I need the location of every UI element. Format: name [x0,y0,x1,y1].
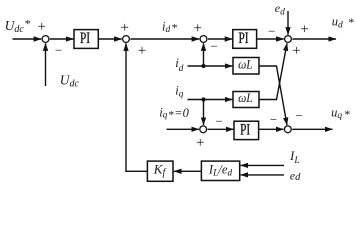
svg-text:+: + [120,20,128,36]
label e_d (bottom input) [290,168,301,183]
sign - above-right of S5 for i_q feedback [215,113,222,128]
wire: i_q into wL block B2 [188,99,233,101]
svg-text:−: − [268,23,275,38]
wire: U_dc feedback arrow up into S1 [45,43,47,86]
sign + above-left of S3 [193,21,201,37]
svg-text:−: − [55,43,62,58]
label i_q (measured q current) [175,84,183,100]
sign + above S2 [120,20,128,36]
svg-text:PI: PI [240,122,250,139]
sign - above-right of S6 for cross-coupling [296,108,303,123]
block B2 wL (q-axis decoupling) [233,91,259,108]
wire: S4 output arrow u_d* [292,38,336,40]
sign + at summing junction S1 [37,19,45,35]
wire: S2 to summing junction S3 (i_d* signal) [130,38,199,40]
block K_f (feed-forward gain) [147,161,173,181]
wire: I_L input arrow into I_L/e_d block [241,164,284,166]
wire: PI U3 output to summing junction S6 [259,128,284,130]
svg-text:−: − [270,112,277,127]
svg-text:ωL: ωL [238,91,253,105]
label U_dc (measured dc voltage) [60,73,80,90]
sign - below-right of S3 for i_d feedback [211,39,218,54]
wire: i_q feedback arrow down into S5 [203,100,205,126]
label U_dc* (input reference) [5,17,31,36]
PI controller U3 (q-axis current) [234,121,259,139]
sign + below S5 [196,135,204,151]
svg-text:PI: PI [80,30,90,47]
summing junction S4 (u_d* output sum) [285,36,292,43]
label I_L (load current) [289,148,300,166]
wire: U_dc* input arrow into summing junction S1 [13,38,42,40]
svg-text:−: − [296,108,303,123]
wire: S5 to PI current controller U3 [208,128,234,130]
sign - above wire PI U3 to S6 [270,112,277,127]
label u_q* (output) [331,106,350,121]
wire: S3 to PI current controller U2 [208,38,232,40]
PI controller U1 (dc voltage) [74,30,98,49]
wire: I_L/e_d output arrow into K_f [174,170,201,172]
wire: PI U2 output to summing junction S4 [257,38,284,40]
sign - below S1 for U_dc feedback [55,43,62,58]
junction dot on i_q line [201,97,205,101]
svg-text:+: + [292,43,300,59]
svg-text:+: + [138,43,146,59]
summing junction S3 (i_d error) [200,36,207,43]
label i_d (measured d current) [175,56,183,74]
wire: i_q*=0 input arrow into S5 [167,128,199,130]
svg-text:+: + [37,19,45,35]
junction dot on i_d line [201,64,205,68]
wire: S1 to PI voltage controller [50,38,74,40]
sign + below-right of S4 for cross-coupling [292,43,300,59]
svg-text:−: − [211,39,218,54]
block I_L/e_d (load current feed-forward) [201,161,239,180]
sign - above wire PI U2 to S4 [268,23,275,38]
label e_d (grid voltage feed-forward, top) [275,1,285,18]
sign + below-right of S2 for K_f feed-forward [138,43,146,59]
summing junction S6 (u_q* output sum) [284,126,291,133]
svg-text:PI: PI [239,30,249,47]
svg-text:+: + [196,135,204,151]
wire: wL B1 output, right then diagonal down into S6 [259,66,287,125]
label u_d* (output) [332,15,355,31]
svg-text:ωL: ωL [238,57,253,71]
sign + right of e_d arrow [300,21,308,37]
svg-text:−: − [215,113,222,128]
block B1 wL (d-axis decoupling) [233,57,259,74]
PI controller U2 (d-axis current) [233,30,257,49]
wire: wL B2 output, right then diagonal up into S4 [259,43,287,99]
wire: e_d input arrow into I_L/e_d block [241,174,284,176]
wire: e_d arrow down into S4 [287,11,289,35]
summing junction S1 (U_dc error) [42,36,49,43]
wire: S6 output arrow u_q* [292,128,332,130]
wire: K_f feed-forward path up into S2 [126,43,147,171]
label i_q*=0 (q-current reference) [159,106,189,122]
wire: i_d into wL block B1 [188,65,233,67]
summing junction S5 (i_q error) [200,126,207,133]
label i_d* (d-current reference) [162,20,178,36]
svg-text:+: + [193,21,201,37]
summing junction S2 (adds feed-forward K_f) [123,36,130,43]
svg-text:+: + [300,21,308,37]
wire: i_d feedback arrow up into S3 [203,43,205,66]
wire: PI U1 output to summing junction S2 [98,38,121,40]
